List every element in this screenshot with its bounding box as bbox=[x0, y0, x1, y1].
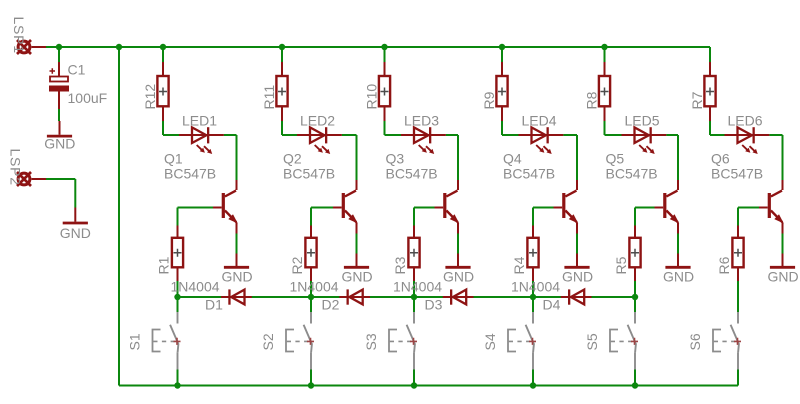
svg-text:GND: GND bbox=[562, 269, 593, 285]
svg-text:BC547B: BC547B bbox=[283, 166, 335, 182]
svg-text:GND: GND bbox=[222, 269, 253, 285]
svg-text:Q4: Q4 bbox=[503, 151, 522, 167]
svg-text:BC547B: BC547B bbox=[711, 166, 763, 182]
svg-text:C1: C1 bbox=[68, 61, 86, 77]
svg-text:GND: GND bbox=[60, 225, 91, 241]
svg-text:GND: GND bbox=[443, 269, 474, 285]
svg-text:LED3: LED3 bbox=[404, 113, 439, 129]
svg-text:LSP2: LSP2 bbox=[8, 149, 24, 186]
svg-text:D3: D3 bbox=[425, 297, 443, 313]
svg-text:BC547B: BC547B bbox=[164, 166, 216, 182]
svg-text:BC547B: BC547B bbox=[386, 166, 438, 182]
svg-text:1N4004: 1N4004 bbox=[290, 279, 339, 295]
svg-text:D1: D1 bbox=[205, 297, 223, 313]
svg-text:S3: S3 bbox=[363, 333, 379, 350]
svg-text:R7: R7 bbox=[689, 91, 705, 109]
svg-text:LED1: LED1 bbox=[182, 113, 217, 129]
svg-text:D4: D4 bbox=[543, 297, 561, 313]
svg-text:R12: R12 bbox=[142, 84, 158, 110]
svg-text:GND: GND bbox=[44, 135, 75, 151]
svg-text:LED2: LED2 bbox=[300, 113, 335, 129]
svg-text:1N4004: 1N4004 bbox=[393, 279, 442, 295]
svg-text:100uF: 100uF bbox=[68, 90, 108, 106]
svg-text:R8: R8 bbox=[583, 91, 599, 109]
svg-text:Q6: Q6 bbox=[711, 151, 730, 167]
svg-text:S6: S6 bbox=[687, 333, 703, 350]
svg-text:R4: R4 bbox=[511, 256, 527, 274]
svg-text:R2: R2 bbox=[289, 256, 305, 274]
svg-text:Q2: Q2 bbox=[283, 151, 302, 167]
svg-text:R5: R5 bbox=[613, 256, 629, 274]
svg-text:Q5: Q5 bbox=[606, 151, 625, 167]
svg-text:LED5: LED5 bbox=[625, 113, 660, 129]
svg-text:1N4004: 1N4004 bbox=[171, 279, 220, 295]
svg-text:Q3: Q3 bbox=[386, 151, 405, 167]
svg-text:GND: GND bbox=[342, 269, 373, 285]
svg-text:S5: S5 bbox=[584, 333, 600, 350]
svg-text:R6: R6 bbox=[716, 256, 732, 274]
svg-text:GND: GND bbox=[663, 269, 694, 285]
svg-text:S4: S4 bbox=[482, 333, 498, 350]
svg-text:BC547B: BC547B bbox=[503, 166, 555, 182]
svg-text:S2: S2 bbox=[260, 333, 276, 350]
svg-text:BC547B: BC547B bbox=[606, 166, 658, 182]
svg-text:D2: D2 bbox=[322, 297, 340, 313]
svg-text:LSP1: LSP1 bbox=[11, 17, 27, 54]
svg-text:R3: R3 bbox=[392, 256, 408, 274]
svg-text:S1: S1 bbox=[126, 333, 142, 350]
svg-text:LED4: LED4 bbox=[522, 113, 557, 129]
svg-text:1N4004: 1N4004 bbox=[511, 279, 560, 295]
svg-text:R10: R10 bbox=[363, 84, 379, 110]
svg-text:LED6: LED6 bbox=[728, 113, 763, 129]
svg-text:R11: R11 bbox=[261, 85, 277, 110]
svg-text:GND: GND bbox=[768, 269, 799, 285]
svg-text:Q1: Q1 bbox=[164, 151, 183, 167]
svg-text:R1: R1 bbox=[156, 256, 172, 274]
svg-text:R9: R9 bbox=[481, 91, 497, 109]
